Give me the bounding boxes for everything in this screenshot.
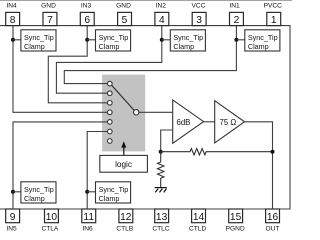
svg-text:Clamp: Clamp xyxy=(24,42,45,51)
svg-text:6: 6 xyxy=(84,15,90,26)
svg-text:IN4: IN4 xyxy=(6,3,17,10)
pin 3 box xyxy=(192,12,206,25)
junction IN2 clamp xyxy=(160,38,164,42)
resistor to ground (vertical) xyxy=(158,152,164,188)
wire IN3: pin 6 down, left, down, right to contact 3 xyxy=(48,26,107,103)
svg-text:14: 14 xyxy=(193,212,205,223)
svg-text:logic: logic xyxy=(115,160,132,169)
svg-text:5: 5 xyxy=(122,15,128,26)
wire IN5: pin 9 up to contact 5 xyxy=(13,122,108,209)
svg-text:1: 1 xyxy=(271,15,277,26)
svg-text:VCC: VCC xyxy=(192,3,206,10)
wire IN3 junction to clamp xyxy=(87,39,95,41)
pin 7 box xyxy=(43,12,57,25)
wire IN6: pin 11 up to contact 6 xyxy=(87,132,107,210)
pin 15 box xyxy=(229,209,243,223)
pin 10 box xyxy=(45,209,59,223)
svg-text:Sync_Tip: Sync_Tip xyxy=(99,33,129,42)
svg-text:13: 13 xyxy=(156,212,168,223)
wire IN5 junction to clamp xyxy=(13,191,21,193)
svg-text:IN2: IN2 xyxy=(156,3,167,10)
switch contact 4 xyxy=(108,110,113,115)
svg-text:Sync_Tip: Sync_Tip xyxy=(248,33,278,42)
svg-text:CTLD: CTLD xyxy=(189,226,206,233)
svg-text:GND: GND xyxy=(116,3,131,10)
svg-text:8: 8 xyxy=(10,15,16,26)
IC body outline xyxy=(0,26,290,209)
svg-text:CTLC: CTLC xyxy=(152,226,169,233)
junction IN5 clamp xyxy=(11,190,15,194)
pin 4 box xyxy=(155,12,169,25)
switch contact 1 xyxy=(108,81,113,86)
pin 5 box xyxy=(118,12,132,25)
switch contact 6 xyxy=(108,129,113,134)
svg-text:Clamp: Clamp xyxy=(99,42,120,51)
op-amp 6dB xyxy=(173,100,204,143)
svg-text:6dB: 6dB xyxy=(177,118,191,127)
svg-text:Clamp: Clamp xyxy=(24,194,45,203)
svg-text:Clamp: Clamp xyxy=(99,194,120,203)
svg-text:12: 12 xyxy=(120,212,132,223)
switch arm xyxy=(112,85,135,110)
junction IN6 clamp xyxy=(85,190,89,194)
wire IN4 junction to clamp xyxy=(13,39,21,41)
svg-text:CTLA: CTLA xyxy=(41,226,58,233)
switch block background xyxy=(102,75,145,152)
junction IN4 clamp xyxy=(11,38,15,42)
svg-text:9: 9 xyxy=(10,212,16,223)
pin 13 box xyxy=(155,209,169,223)
wire IN1: pin 2 down, left, down, right to contact 1 xyxy=(64,26,236,84)
switch contact 7 (open) xyxy=(108,139,113,144)
switch contact 5 xyxy=(108,120,113,125)
svg-text:Clamp: Clamp xyxy=(248,42,269,51)
svg-text:GND: GND xyxy=(41,3,56,10)
sync tip clamp IN1 xyxy=(245,30,280,51)
wire 75 ohm output to pin 16 xyxy=(245,122,273,209)
resistor feedback (horizontal) xyxy=(161,149,273,155)
pin 11 box xyxy=(82,209,96,223)
switch contact 3 xyxy=(108,101,113,106)
sync tip clamp IN2 xyxy=(170,30,205,51)
pin 1 box xyxy=(267,12,281,25)
svg-text:7: 7 xyxy=(47,15,53,26)
svg-text:CTLB: CTLB xyxy=(116,226,133,233)
pin 8 box xyxy=(6,12,20,25)
svg-text:OUT: OUT xyxy=(266,226,280,233)
pin 12 box xyxy=(119,209,133,223)
svg-text:75 Ω: 75 Ω xyxy=(220,118,237,127)
switch contact 2 xyxy=(108,91,113,96)
svg-text:IN6: IN6 xyxy=(82,226,93,233)
wire IN6 junction to clamp xyxy=(87,191,95,193)
svg-text:Sync_Tip: Sync_Tip xyxy=(173,33,203,42)
svg-text:Sync_Tip: Sync_Tip xyxy=(24,185,54,194)
svg-text:16: 16 xyxy=(267,212,279,223)
svg-text:IN5: IN5 xyxy=(6,226,17,233)
node A feedback junction xyxy=(159,150,163,154)
svg-text:2: 2 xyxy=(234,15,240,26)
wire IN2: pin 4 down, left, down, right to contact 2 xyxy=(56,26,161,94)
svg-text:Clamp: Clamp xyxy=(173,42,194,51)
pin 2 box xyxy=(230,12,244,25)
svg-text:PGND: PGND xyxy=(226,226,245,233)
switch pole xyxy=(134,110,139,115)
svg-text:4: 4 xyxy=(159,15,165,26)
svg-text:3: 3 xyxy=(196,15,202,26)
svg-text:15: 15 xyxy=(230,212,242,223)
node B output junction xyxy=(271,150,275,154)
wire IN1 junction to clamp xyxy=(236,39,244,41)
pin 9 box xyxy=(6,209,20,223)
sync tip clamp IN6 xyxy=(96,182,131,203)
sync tip clamp IN5 xyxy=(21,182,56,203)
junction IN1 clamp xyxy=(234,38,238,42)
wire IN2 junction to clamp xyxy=(162,39,171,41)
logic block xyxy=(100,155,148,172)
pin 14 box xyxy=(192,209,206,223)
svg-text:Sync_Tip: Sync_Tip xyxy=(99,185,129,194)
pin 6 box xyxy=(80,12,94,25)
wire 6dB to 75 ohm amp xyxy=(204,121,215,123)
svg-text:IN3: IN3 xyxy=(81,3,92,10)
sync tip clamp IN4 xyxy=(21,30,56,51)
svg-text:PVCC: PVCC xyxy=(264,3,283,10)
wire feedback to 6dB inverting input xyxy=(161,130,173,152)
svg-text:10: 10 xyxy=(46,212,58,223)
svg-text:Sync_Tip: Sync_Tip xyxy=(24,33,54,42)
wire pole to 6dB amp xyxy=(139,111,173,113)
sync tip clamp IN3 xyxy=(96,30,131,51)
ground xyxy=(155,188,167,193)
svg-text:11: 11 xyxy=(83,212,94,223)
pin 16 box xyxy=(266,209,280,223)
logic control arrow xyxy=(123,146,125,155)
wire IN4: pin 8 down to switch contact 4 xyxy=(13,26,108,113)
svg-text:IN1: IN1 xyxy=(229,3,240,10)
output driver 75 ohm xyxy=(215,101,245,143)
junction IN3 clamp xyxy=(85,38,89,42)
